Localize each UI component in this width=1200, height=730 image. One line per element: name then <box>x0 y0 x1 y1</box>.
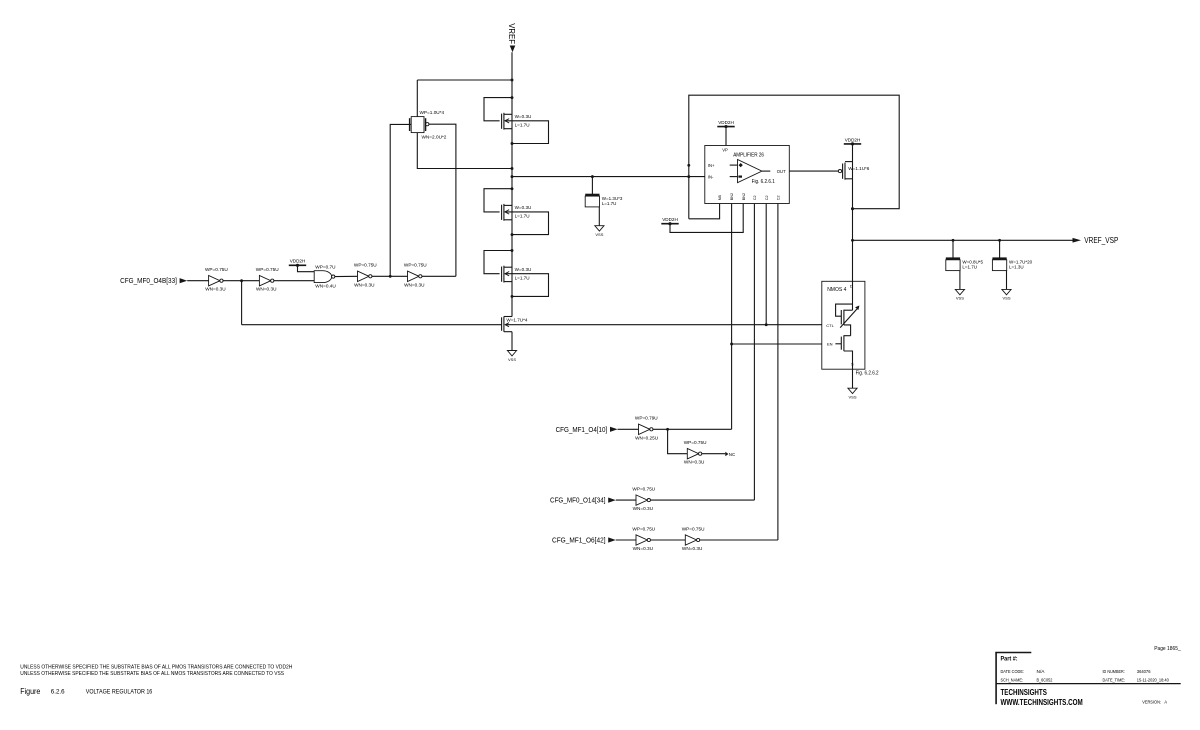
block U4 NMOS 4 <box>822 281 865 369</box>
svg-text:VSS: VSS <box>848 395 856 400</box>
svg-text:NMOS 4: NMOS 4 <box>827 287 846 293</box>
label SCH_NAME row <box>1001 678 1170 684</box>
inverter INV9 (WP=0.75U WN=0.3U) <box>682 526 705 551</box>
svg-text:ID NUMBER:: ID NUMBER: <box>1103 669 1125 675</box>
transistor M5 (W=1.1U*6) <box>838 162 869 180</box>
titleblock border <box>995 653 1180 705</box>
svg-text:WN=0.4U: WN=0.4U <box>315 284 336 289</box>
svg-text:CFG_MF0_O4B[33]: CFG_MF0_O4B[33] <box>120 278 177 285</box>
svg-text:Figure: Figure <box>20 686 40 696</box>
ground VSS under C3 <box>1002 289 1011 300</box>
power VDD2H at amp VP <box>717 120 734 128</box>
svg-text:WN=0.3U: WN=0.3U <box>205 287 226 292</box>
wire VREF vertical main stack <box>511 52 513 316</box>
inverter INV5 (WP=0.79U WN=0.25U) <box>635 416 659 441</box>
wire U3 output down <box>429 124 456 276</box>
svg-text:Part #:: Part #: <box>1001 656 1018 663</box>
transistor M3 (W=0.3U L=1.7U) <box>484 249 549 298</box>
svg-text:BN2: BN2 <box>730 193 734 200</box>
wire INV9 to amp pin6 <box>700 539 778 541</box>
ground VSS under M4 <box>507 351 516 362</box>
svg-text:6.2.6: 6.2.6 <box>51 688 65 695</box>
node CFG_MF0_O14[34] port <box>550 498 616 505</box>
inverter INV2 (WP=0.75U WN=0.3U) <box>256 267 279 292</box>
wire amp pin4 down <box>753 204 755 501</box>
wire VP pin <box>725 127 727 146</box>
svg-text:WP=0.75U: WP=0.75U <box>632 487 655 492</box>
inverter INV6 (WP=0.75U WN=0.3U) <box>684 440 707 465</box>
svg-text:VSS: VSS <box>595 232 603 237</box>
svg-text:C2: C2 <box>753 195 757 200</box>
capacitor C1 (W=1.3U*3 L=1.7U) <box>585 177 623 226</box>
wire INV6 to NC <box>702 453 726 455</box>
svg-text:WN=0.3U: WN=0.3U <box>633 506 654 511</box>
ground VSS under U4 <box>848 388 857 399</box>
svg-text:VDD2H: VDD2H <box>662 217 678 222</box>
svg-text:Fig. 6.2.6.1: Fig. 6.2.6.1 <box>752 179 776 185</box>
inverter INV3 (WP=0.75U WN=0.3U) <box>354 263 377 288</box>
svg-text:L=1.7U: L=1.7U <box>515 122 530 127</box>
svg-text:TECHINSIGHTS: TECHINSIGHTS <box>1001 688 1047 697</box>
svg-text:WP=0.75U: WP=0.75U <box>682 526 705 531</box>
svg-text:B_6C052: B_6C052 <box>1037 678 1053 684</box>
svg-text:NB: NB <box>718 195 722 201</box>
wire feedback loop <box>689 95 899 219</box>
svg-text:W=0.3U: W=0.3U <box>515 114 532 119</box>
node VREF port <box>507 23 516 52</box>
wire INV7 to amp pin4 <box>650 499 754 501</box>
svg-text:IN+: IN+ <box>708 163 715 168</box>
transistor M2 (W=0.3U L=1.7U) <box>484 187 549 236</box>
svg-text:WP=0.75U: WP=0.75U <box>404 263 427 268</box>
svg-text:NC: NC <box>729 452 735 457</box>
wire U3 bottom pin to main stack <box>417 133 512 169</box>
svg-text:WP=0.7U: WP=0.7U <box>315 264 336 269</box>
node VREF_VSP port <box>1073 236 1119 245</box>
wire VDD2H to NAND input <box>298 265 315 271</box>
wire INV3 to INV4 <box>372 275 408 277</box>
power VDD2H at M5 <box>844 137 861 145</box>
node CFG_MF1_O6[42] port <box>552 537 616 544</box>
svg-text:VP: VP <box>722 148 728 153</box>
transistor M4 (W=1.7U*4) <box>502 317 528 332</box>
wire INV5 to amp pin2 <box>653 428 732 430</box>
wire amp pin NB to feedback node <box>689 204 720 219</box>
wire U4 S to ground <box>852 369 854 388</box>
node CFG_MF0_O4B[33] port <box>120 278 187 285</box>
wire port to INV5 <box>618 428 639 430</box>
svg-text:WN=0.3U: WN=0.3U <box>354 282 375 287</box>
node CFG_MF1_O4[10] port <box>556 427 618 434</box>
wire amp pin6 down <box>777 204 779 541</box>
svg-text:AMPLIFIER 26: AMPLIFIER 26 <box>733 152 764 158</box>
svg-text:VOLTAGE REGULATOR 16: VOLTAGE REGULATOR 16 <box>86 688 153 695</box>
inverter INV1 (WP=0.75U WN=0.3U) <box>205 267 228 292</box>
inverter INV8 (WP=0.75U WN=0.3U) <box>632 526 655 551</box>
wire port to INV7 <box>616 499 636 501</box>
wire INV2 to NAND <box>274 280 315 282</box>
wire INV8 to INV9 <box>650 539 685 541</box>
svg-text:CFG_MF1_O4[10]: CFG_MF1_O4[10] <box>556 427 608 434</box>
svg-text:WN=0.3U: WN=0.3U <box>404 282 425 287</box>
wire M4 source to ground <box>511 332 513 351</box>
label DATE CODE row <box>1001 669 1151 675</box>
svg-text:BN2: BN2 <box>742 193 746 200</box>
svg-text:WWW.TECHINSIGHTS.COM: WWW.TECHINSIGHTS.COM <box>1001 698 1083 707</box>
svg-text:CTL: CTL <box>826 323 834 328</box>
ground VSS under C2 <box>955 289 964 300</box>
svg-text:DATE_TIME:: DATE_TIME: <box>1103 678 1126 684</box>
wire port to INV8 <box>616 539 636 541</box>
wire net VREF to amp IN- <box>512 176 705 178</box>
svg-text:N/A: N/A <box>1037 669 1046 675</box>
svg-text:L=1.7U: L=1.7U <box>962 265 977 270</box>
wire junction down to CTL <box>241 281 243 325</box>
svg-text:WN=0.3U: WN=0.3U <box>633 546 654 551</box>
svg-text:VDD2H: VDD2H <box>290 259 306 264</box>
inverter INV7 (WP=0.75U WN=0.3U) <box>632 487 655 512</box>
svg-text:WP=0.75U: WP=0.75U <box>354 263 377 268</box>
svg-text:C2: C2 <box>777 195 781 200</box>
svg-text:VSS: VSS <box>508 357 516 362</box>
svg-text:UNLESS OTHERWISE SPECIFIED THE: UNLESS OTHERWISE SPECIFIED THE SUBSTRATE… <box>20 664 292 670</box>
svg-text:DATE CODE:: DATE CODE: <box>1001 669 1025 675</box>
wire NAND to INV3 <box>335 275 358 277</box>
svg-text:WP=0.79U: WP=0.79U <box>635 416 658 421</box>
wire port to INV1 <box>187 280 208 282</box>
svg-text:WN=0.25U: WN=0.25U <box>635 435 659 440</box>
svg-text:L=1.7U: L=1.7U <box>515 214 530 219</box>
svg-text:WP=0.75U: WP=0.75U <box>632 526 655 531</box>
svg-text:WP=0.75U: WP=0.75U <box>205 267 228 272</box>
svg-text:WP=0.75U: WP=0.75U <box>684 440 707 445</box>
svg-text:VREF_VSP: VREF_VSP <box>1084 236 1118 245</box>
node NC marker <box>725 452 735 457</box>
svg-text:CFG_MF0_O14[34]: CFG_MF0_O14[34] <box>550 498 606 505</box>
power VDD2H at NAND input <box>289 259 306 267</box>
wire U3 top pin <box>416 80 418 117</box>
wire U3 input from node A <box>390 124 411 276</box>
transistor M1 (W=0.3U L=1.7U) <box>484 96 549 145</box>
svg-text:L=1.7U: L=1.7U <box>602 201 617 206</box>
svg-text:W=0.3U: W=0.3U <box>515 205 532 210</box>
svg-text:364076: 364076 <box>1137 669 1151 675</box>
svg-text:WN=0.3U: WN=0.3U <box>256 287 277 292</box>
svg-text:UNLESS OTHERWISE SPECIFIED THE: UNLESS OTHERWISE SPECIFIED THE SUBSTRATE… <box>20 671 284 677</box>
svg-text:EN: EN <box>827 342 833 347</box>
inverter U3 (WP=1.0U*4 WN=2.0U*2) <box>410 110 447 139</box>
capacitor C3 (W=1.7U*20 L=1.3U) <box>992 240 1032 289</box>
transistor inside U4 top (variable) <box>836 281 860 335</box>
wire EN from amp pin2 <box>732 343 822 345</box>
wire amp pin3 to VDD2H <box>670 204 743 233</box>
transistor inside U4 bottom (EN) <box>835 335 852 369</box>
wire CTL left segment <box>242 324 502 326</box>
wire INV4 output up <box>422 275 456 277</box>
svg-text:VDD2H: VDD2H <box>845 137 861 142</box>
svg-text:SCH_NAME:: SCH_NAME: <box>1001 678 1024 684</box>
svg-text:L=1.3U: L=1.3U <box>1009 265 1024 270</box>
op-amp U1 bottom pin labels <box>718 193 780 200</box>
svg-text:VSS: VSS <box>956 296 964 301</box>
wire CTL right segment <box>505 324 822 326</box>
capacitor C2 (W=0.8U*5 L=1.7U) <box>946 240 984 289</box>
svg-text:WN=2.0U*2: WN=2.0U*2 <box>422 135 447 140</box>
svg-text:L=1.7U: L=1.7U <box>515 275 530 280</box>
svg-text:Fig. 6.2.6.2: Fig. 6.2.6.2 <box>856 371 879 377</box>
svg-text:OUT: OUT <box>777 169 786 174</box>
svg-text:WN=0.3U: WN=0.3U <box>684 460 705 465</box>
svg-text:CFG_MF1_O6[42]: CFG_MF1_O6[42] <box>552 538 606 545</box>
wire amp pin2 down <box>731 204 733 430</box>
svg-text:WP=0.75U: WP=0.75U <box>256 267 279 272</box>
wire VREF_VSP net <box>853 239 1074 241</box>
svg-text:IN-: IN- <box>708 174 714 179</box>
svg-text:VREF: VREF <box>507 23 516 44</box>
wire INV1 to INV2 <box>223 280 260 282</box>
op-amp U1 AMPLIFIER 26 <box>705 146 790 204</box>
svg-text:W=1.7U*4: W=1.7U*4 <box>506 317 528 322</box>
svg-text:W=0.3U: W=0.3U <box>515 267 532 272</box>
svg-text:15-11-2020_18:40: 15-11-2020_18:40 <box>1137 678 1169 684</box>
svg-text:W=1.1U*6: W=1.1U*6 <box>848 166 870 171</box>
svg-text:WN=0.3U: WN=0.3U <box>682 546 703 551</box>
wire M5 drain node down <box>852 144 854 281</box>
wire branch to INV6 <box>668 429 688 453</box>
wire top horizontal to U3 <box>417 79 512 81</box>
svg-text:VSS: VSS <box>1002 296 1010 301</box>
svg-text:Page 1865_: Page 1865_ <box>1154 646 1181 652</box>
ground VSS under C1 <box>595 226 604 237</box>
svg-text:VERSION: A: VERSION: A <box>1142 699 1167 705</box>
wire amp pin5 down to CTL <box>765 204 767 325</box>
svg-text:C2: C2 <box>765 195 769 200</box>
power VDD2H at amp pin3 <box>661 217 678 225</box>
svg-text:VDD2H: VDD2H <box>718 120 734 125</box>
nand gate U2 (WP=0.7U WN=0.4U) <box>314 264 336 288</box>
inverter INV4 (WP=0.75U WN=0.3U) <box>404 263 427 288</box>
svg-text:WP=1.0U*4: WP=1.0U*4 <box>420 110 445 115</box>
wire amp OUT to M5 gate <box>789 170 838 172</box>
